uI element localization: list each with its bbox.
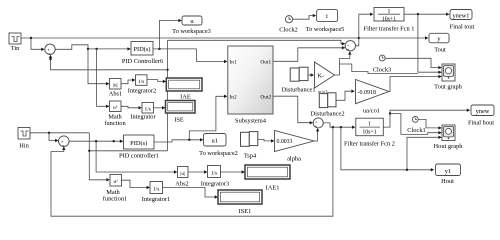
- wire Tsp4 to alpha: [258, 139, 275, 142]
- wire Integrator to ISE: [154, 106, 166, 109]
- wire alpha to sum S4: [314, 128, 319, 141]
- wire node to Abs2: [96, 141, 177, 174]
- wire Integrator1 to ISE1: [163, 188, 219, 199]
- svg-text:PID(s): PID(s): [133, 46, 150, 53]
- subsystem Subsystem4: [228, 46, 273, 125]
- clock Clock2: [279, 16, 297, 34]
- Integrator: [130, 103, 156, 121]
- svg-text:u1: u1: [212, 138, 218, 145]
- wire K- to S2 bottom: [335, 51, 352, 75]
- svg-text:To workspace3: To workspace3: [172, 28, 211, 35]
- svg-text:function1: function1: [103, 196, 128, 203]
- wire PID1 output: [154, 138, 203, 142]
- wire Clock1 to Hout graph: [418, 119, 442, 129]
- Math function: [104, 101, 126, 127]
- wire branch down to sum S1: [31, 38, 45, 51]
- To workspace3 u: [172, 16, 211, 35]
- wire branch to Tout: [359, 36, 429, 39]
- svg-text:1: 1: [368, 122, 371, 128]
- error cross wire to sum S2: [168, 40, 346, 45]
- wire Abs2 to Integrator3: [188, 170, 207, 173]
- svg-text:To workspace5: To workspace5: [306, 26, 345, 33]
- step source Disturbance1: [281, 67, 315, 93]
- wire Math function to Integrator: [121, 106, 142, 109]
- gain K-: [315, 62, 335, 94]
- svg-text:1/s: 1/s: [145, 107, 151, 113]
- Abs1: [109, 79, 123, 98]
- svg-text:Disturbance2: Disturbance2: [310, 111, 344, 118]
- wire Tin to right rail: [21, 37, 360, 39]
- wire node to Abs1: [88, 49, 109, 86]
- wire Abs1 to Integrator2: [121, 78, 135, 83]
- sum S4: [313, 118, 323, 129]
- svg-text:Tout: Tout: [434, 47, 446, 54]
- To workspace2 u1: [199, 134, 238, 158]
- svg-text:Abs1: Abs1: [109, 91, 123, 98]
- outport ynew1: [450, 10, 475, 31]
- PID controller1: [119, 135, 159, 160]
- scope Tout graph: [434, 64, 463, 91]
- wire Hin rail: [30, 132, 89, 134]
- svg-text:10s+1: 10s+1: [362, 130, 376, 136]
- sum S2: [345, 41, 355, 52]
- svg-text:PID controller1: PID controller1: [119, 153, 159, 160]
- svg-text:Clock1: Clock1: [407, 127, 425, 134]
- clock Clock3: [373, 55, 391, 73]
- outport y1 Hout: [436, 164, 461, 185]
- wire link y150: [89, 150, 167, 152]
- step source Disturbance2: [310, 93, 344, 118]
- svg-text:PID(s): PID(s): [130, 140, 147, 147]
- Integrator3: [201, 166, 229, 188]
- svg-text:IAE1: IAE1: [266, 185, 280, 192]
- svg-text:Abs2: Abs2: [175, 181, 189, 188]
- svg-text:Tin: Tin: [11, 45, 20, 52]
- svg-text:K-: K-: [318, 73, 325, 80]
- wire Disturbance2 to gain: [336, 90, 355, 101]
- svg-text:|u|: |u|: [180, 171, 185, 177]
- svg-text:PID Controller6: PID Controller6: [122, 58, 163, 65]
- svg-text:IAE: IAE: [180, 94, 191, 101]
- svg-text:Final hout: Final hout: [468, 120, 494, 127]
- Integrator2: [128, 75, 156, 95]
- svg-text:Filter transfer Fcn 1: Filter transfer Fcn 1: [364, 26, 415, 33]
- display ISE1: [218, 190, 262, 215]
- display IAE: [166, 78, 202, 101]
- wire Filter2 to ynew: [383, 109, 470, 128]
- svg-text:ISE1: ISE1: [239, 208, 252, 215]
- wire Hout branch to Hout graph: [406, 136, 442, 171]
- svg-text:t: t: [326, 13, 328, 20]
- wire Out1 to sum S2: [273, 46, 345, 61]
- svg-text:u²: u²: [113, 105, 118, 111]
- wire riser to u: [159, 19, 181, 49]
- PID Controller6: [122, 42, 163, 66]
- scope Hout graph: [434, 125, 464, 150]
- svg-text:Subsystem4: Subsystem4: [235, 118, 267, 125]
- gain alpha: [275, 131, 315, 163]
- step source Hin: [18, 128, 30, 150]
- svg-text:Hout: Hout: [441, 178, 454, 185]
- svg-text:+: +: [347, 47, 350, 52]
- svg-text:Out2: Out2: [260, 94, 271, 100]
- transfer fcn Filter transfer Fcn 1: [364, 8, 415, 33]
- svg-text:Tsp4: Tsp4: [244, 153, 257, 160]
- svg-text:Integrator2: Integrator2: [128, 88, 156, 95]
- To workspace5 t: [306, 10, 345, 33]
- svg-text:Disturbance1: Disturbance1: [281, 87, 315, 94]
- svg-text:function: function: [104, 120, 126, 127]
- wire S2 output riser: [356, 13, 374, 46]
- svg-text:Final tout: Final tout: [450, 24, 475, 31]
- svg-text:In2: In2: [230, 94, 237, 100]
- svg-text:10s+1: 10s+1: [382, 17, 396, 23]
- wire Math function1 to Integrator1: [122, 180, 151, 189]
- svg-text:y1: y1: [445, 168, 451, 175]
- wire signal to Tout graph: [418, 14, 442, 74]
- outport y Tout: [429, 33, 449, 53]
- sum S1: [45, 44, 55, 56]
- sum S3: [59, 136, 70, 149]
- svg-text:ynew1: ynew1: [452, 12, 469, 19]
- wire link to scope row: [340, 64, 418, 74]
- svg-text:u²: u²: [114, 179, 119, 185]
- Abs2: [175, 167, 189, 188]
- step source Tsp4: [241, 132, 258, 160]
- svg-text:Integrator: Integrator: [130, 114, 156, 121]
- display IAE1: [245, 165, 290, 192]
- display ISE: [166, 101, 196, 124]
- wire gain ua/co1 to Tout graph: [389, 75, 442, 92]
- wire branch to y1 Hout: [341, 127, 434, 171]
- Math function1: [103, 175, 128, 203]
- svg-text:To workspace2: To workspace2: [199, 150, 238, 157]
- wire PID6 to In1: [197, 49, 228, 63]
- wire Clock2 to t: [293, 14, 317, 19]
- gain ua/co1: [356, 80, 390, 115]
- svg-text:alpha: alpha: [287, 156, 301, 163]
- svg-text:ua/co1: ua/co1: [363, 108, 380, 115]
- wire signal to Hout graph: [390, 114, 442, 135]
- wire Integrator2 to IAE: [147, 80, 166, 84]
- vertical link wire x167: [166, 40, 168, 151]
- svg-text:0.0033: 0.0033: [277, 139, 293, 145]
- feedback wire into S1 bottom: [49, 55, 168, 70]
- svg-text:Integrator3: Integrator3: [201, 181, 229, 188]
- wire Hin to sum S3: [49, 133, 59, 142]
- wire feedback bottom to S3: [51, 127, 333, 216]
- wire PID6 output rail: [153, 48, 197, 50]
- wire S1 to PID Controller6: [55, 45, 131, 51]
- Integrator1: [142, 182, 170, 204]
- svg-text:Clock3: Clock3: [373, 67, 391, 74]
- wire Hin drop to Math function1: [88, 133, 110, 182]
- svg-text:Clock2: Clock2: [279, 27, 297, 34]
- svg-text:Filter transfer Fcn 2: Filter transfer Fcn 2: [344, 141, 395, 148]
- wire S4 to Filter2: [323, 123, 355, 129]
- svg-text:ynew: ynew: [476, 108, 490, 115]
- outport ynew: [468, 105, 494, 127]
- wire Out2 to sum S4: [273, 96, 313, 124]
- svg-text:1/s: 1/s: [138, 79, 144, 85]
- wire Clock3 to Tout graph: [385, 58, 442, 69]
- svg-text:Tout graph: Tout graph: [434, 84, 463, 91]
- svg-text:Hin: Hin: [19, 143, 29, 150]
- wire Integrator3 to IAE1: [221, 170, 246, 173]
- step source Tin: [9, 33, 21, 52]
- wire PID1 branch to In2: [189, 95, 227, 140]
- svg-text:ISE: ISE: [174, 117, 184, 124]
- wire Filter1 to ynew1: [404, 13, 450, 16]
- svg-text:Integrator1: Integrator1: [142, 196, 170, 203]
- svg-text:|u|: |u|: [113, 83, 118, 89]
- wire S3 to PID controller1: [69, 140, 123, 143]
- svg-text:1/s: 1/s: [153, 186, 159, 192]
- svg-text:1/s: 1/s: [211, 170, 217, 176]
- svg-text:-0.0918: -0.0918: [358, 90, 377, 96]
- svg-text:In1: In1: [230, 60, 237, 66]
- svg-text:Hout graph: Hout graph: [434, 143, 464, 150]
- wire node to Math function: [97, 49, 110, 108]
- wire Disturbance1 to gain K-: [308, 73, 315, 76]
- transfer fcn Filter transfer Fcn 2: [344, 118, 395, 147]
- svg-text:Out1: Out1: [260, 60, 271, 66]
- clock Clock1: [407, 117, 425, 135]
- svg-text:+: +: [315, 124, 318, 129]
